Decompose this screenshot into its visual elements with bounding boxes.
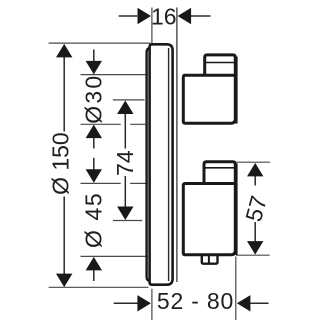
dimension 74 arrows xyxy=(117,101,133,115)
dimension O150 line xyxy=(63,56,65,132)
svg-text:Ø 45: Ø 45 xyxy=(80,192,106,248)
dimension O45 arrows+tails xyxy=(93,158,95,170)
extension line 57 top xyxy=(237,161,271,163)
extension line 52-80 left xyxy=(151,289,153,320)
dimension 52-80 tails xyxy=(114,302,138,304)
bottom handle nub divider xyxy=(208,256,210,264)
plate rear flare xyxy=(147,48,150,281)
extension line bottom of plate (O150 bottom) xyxy=(49,286,149,288)
extension line O30 bottom (gap at 74 crossing) xyxy=(80,123,120,125)
dimension 16 arrows xyxy=(138,8,152,24)
extension line 52-80 right xyxy=(235,257,237,321)
dimension 57 line xyxy=(254,176,256,186)
extension line O45 top (gap at 74 crossing) xyxy=(81,182,121,184)
extension line plate rim (16 right), runs down along plate xyxy=(176,8,178,283)
top handle body xyxy=(183,75,235,123)
top handle right face thickening xyxy=(235,57,238,124)
top handle cap inner line xyxy=(204,62,237,64)
dimension 74 line xyxy=(124,114,126,149)
extension line O45 bottom xyxy=(81,255,149,257)
svg-text:Ø 150: Ø 150 xyxy=(48,132,74,195)
extension line O30 top xyxy=(81,74,149,76)
extension line 74 top (handle centerline) xyxy=(113,99,145,101)
svg-text:52 - 80: 52 - 80 xyxy=(157,288,234,314)
dimension 52-80 arrows xyxy=(137,295,151,311)
extension line top of plate (O150 top) xyxy=(49,42,151,44)
escutcheon plate outline xyxy=(150,44,173,284)
dimension 16 tails xyxy=(119,15,138,17)
bottom handle nub xyxy=(202,255,218,264)
top handle cap xyxy=(205,55,236,75)
svg-text:Ø30: Ø30 xyxy=(80,74,106,124)
dimension 57 arrows xyxy=(247,163,263,177)
dimension O30 arrows+tails xyxy=(93,49,95,62)
bottom handle right face thickening xyxy=(235,164,238,256)
bottom handle cap inner line xyxy=(203,167,237,169)
bottom handle body xyxy=(183,184,235,255)
extension line wall plane top (16 left) xyxy=(151,8,153,44)
svg-text:16: 16 xyxy=(151,3,177,29)
extension line 74 bottom (handle centerline) xyxy=(113,220,142,222)
bottom handle cap xyxy=(204,162,235,184)
svg-text:74: 74 xyxy=(112,150,138,176)
plate front face line xyxy=(168,48,170,281)
extension line 57 bottom / body bottom extended xyxy=(236,254,270,256)
dimension O150 arrows xyxy=(56,44,72,58)
